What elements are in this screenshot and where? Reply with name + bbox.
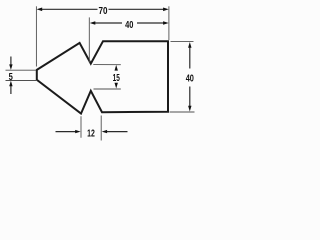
dim line 12 left tail — [56, 131, 77, 133]
dim line 12 right tail — [107, 131, 128, 133]
arrow 12 right-pointing — [75, 130, 80, 133]
dim line 40 right lower segment — [189, 87, 191, 107]
dim line 40 top right segment — [137, 22, 164, 24]
part outline — [37, 41, 168, 113]
extension line right edge top vertical — [168, 6, 170, 40]
extension line 12 left vertical — [80, 116, 82, 138]
arrow 70 right — [163, 8, 169, 12]
arrow 70 left — [37, 8, 43, 12]
dim line 70 right segment — [109, 8, 165, 10]
svg-text:15: 15 — [113, 73, 120, 84]
dim line 40 top left segment — [94, 22, 122, 24]
extension line 5 bottom — [6, 80, 37, 82]
arrow 40 right down — [188, 106, 191, 112]
svg-text:12: 12 — [87, 128, 95, 139]
extension line 12 right vertical — [100, 116, 102, 141]
arrow 12 left-pointing — [102, 130, 107, 133]
dim line 40 right upper segment — [189, 48, 191, 69]
arrow 40 top right — [163, 21, 169, 25]
extension line 40 right bottom — [170, 111, 195, 113]
extension line 15 top — [93, 64, 121, 66]
svg-text:40: 40 — [186, 74, 195, 85]
extension line left tip vertical — [35, 6, 37, 66]
arrow 40 right up — [188, 42, 191, 48]
dim line 5 upper vertical — [10, 57, 12, 66]
dim line 70 left segment — [40, 8, 98, 10]
extension line 15 bottom — [94, 88, 121, 90]
svg-text:5: 5 — [9, 72, 14, 83]
extension line notch vertex vertical — [88, 17, 90, 62]
dim line 5 lower vertical — [10, 86, 12, 94]
extension line 40 right top — [171, 41, 194, 43]
arrow 5 down — [9, 64, 12, 70]
arrow 15 up — [115, 65, 118, 71]
arrow 5 up — [9, 81, 12, 87]
svg-text:70: 70 — [99, 6, 108, 17]
arrow 15 down — [115, 83, 118, 89]
extension line 5 top — [6, 69, 37, 71]
arrow 40 top left — [90, 21, 96, 25]
svg-text:40: 40 — [125, 20, 134, 31]
